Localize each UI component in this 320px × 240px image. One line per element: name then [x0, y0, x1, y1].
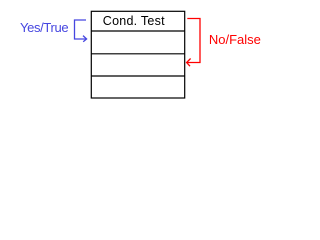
row separator 2 — [91, 53, 184, 55]
row separator 1 — [91, 30, 184, 32]
svg-text:Yes/True: Yes/True — [20, 20, 68, 35]
row separator 3 — [91, 75, 184, 77]
red arrowhead — [187, 59, 191, 67]
statement-stack table outline — [91, 11, 184, 98]
svg-text:Cond. Test: Cond. Test — [103, 14, 165, 28]
svg-text:No/False: No/False — [209, 32, 261, 47]
red No/False branch wire — [187, 19, 200, 63]
blue Yes/True branch wire — [75, 20, 87, 39]
blue arrowhead — [83, 36, 87, 42]
